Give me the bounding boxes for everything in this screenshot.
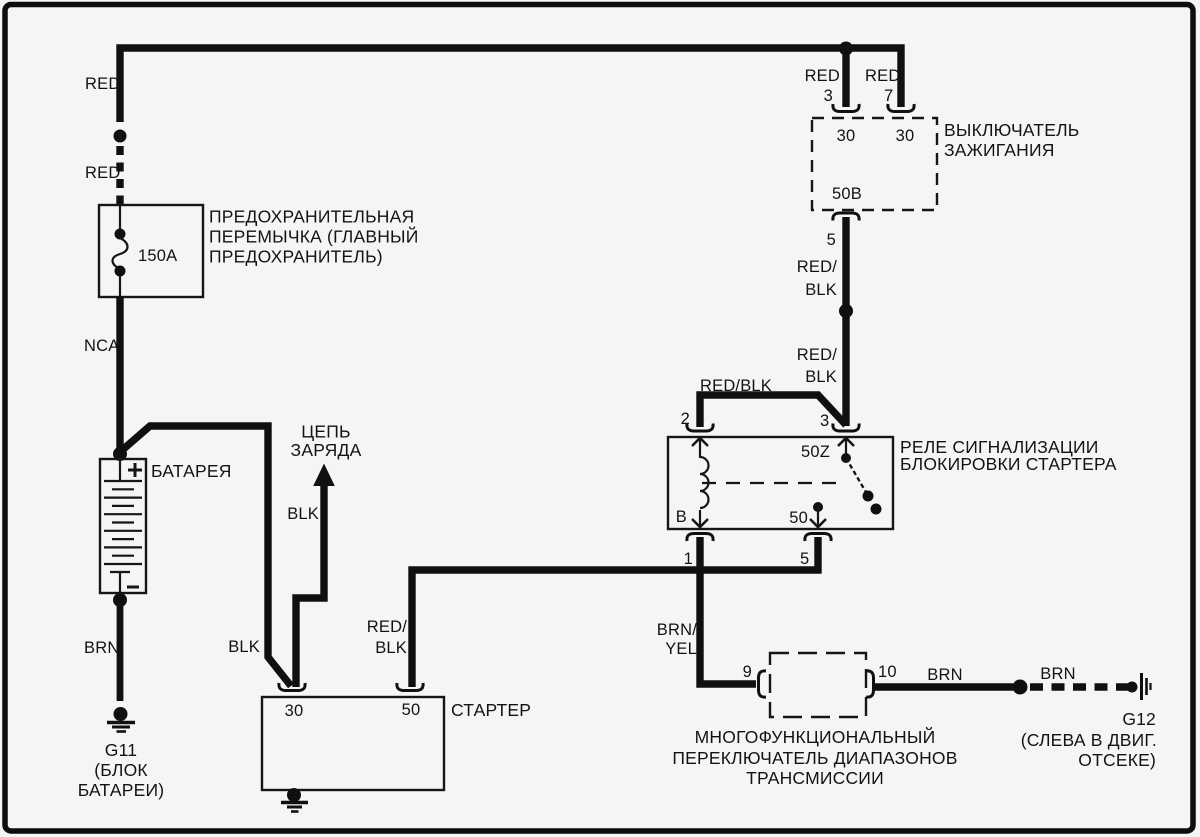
connector cup: ignition pin 5 (below box): [833, 213, 859, 221]
svg-text:30: 30: [285, 702, 304, 720]
svg-text:30: 30: [896, 127, 915, 145]
ground G12 symbol: [1127, 682, 1138, 693]
connector cup: relay pin 3: [833, 424, 859, 432]
svg-text:RED: RED: [85, 164, 120, 182]
switch pivot: [841, 453, 851, 463]
svg-text:ПРЕДОХРАНИТЕЛЬНАЯ: ПРЕДОХРАНИТЕЛЬНАЯ: [209, 207, 414, 227]
svg-text:RED/: RED/: [797, 346, 837, 364]
relay coil terminal arrow (up, pin 2): [692, 438, 708, 446]
svg-text:G11: G11: [105, 740, 137, 760]
ground at starter: [287, 788, 301, 802]
svg-text:BRN/: BRN/: [657, 621, 697, 639]
wire: pin 10 to junction (BRN): [874, 683, 1013, 690]
svg-text:ВЫКЛЮЧАТЕЛЬ: ВЫКЛЮЧАТЕЛЬ: [944, 120, 1079, 140]
svg-text:ЦЕПЬ: ЦЕПЬ: [301, 422, 350, 442]
wire: relay pin 5 to starter terminal 50 (RED/BLK): [412, 537, 818, 687]
wire: relay pin 2 branch joining pin 3 wire: [700, 395, 846, 427]
svg-text:БАТАРЕИ): БАТАРЕИ): [78, 780, 165, 800]
wire: fuse to battery: [116, 297, 123, 451]
svg-text:БАТАРЕЯ: БАТАРЕЯ: [151, 461, 232, 481]
connector cup: range switch pin 9: [759, 671, 767, 697]
svg-text:150A: 150A: [138, 247, 177, 265]
battery top stub: [119, 459, 121, 481]
battery G1: [100, 459, 146, 593]
connector cup: ignition pin 7: [888, 104, 914, 112]
svg-text:BLK: BLK: [375, 639, 407, 657]
svg-text:B: B: [676, 508, 687, 526]
connector cup: starter 50: [397, 683, 423, 691]
svg-text:RED: RED: [85, 75, 120, 93]
svg-text:ПЕРЕМЫЧКА (ГЛАВНЫЙ: ПЕРЕМЫЧКА (ГЛАВНЫЙ: [209, 226, 419, 247]
battery cell plates: [104, 481, 142, 564]
svg-text:10: 10: [878, 663, 897, 681]
svg-text:RED/: RED/: [367, 618, 407, 636]
svg-text:5: 5: [827, 231, 836, 249]
wire: battery to ground G11: [117, 603, 124, 701]
svg-text:BLK: BLK: [228, 638, 260, 656]
wire: drop to ignition pin 3: [842, 48, 849, 107]
wire: dashed RED segment into fuse: [116, 146, 123, 205]
wire: relay pin 1 down to range switch pin 9 (BRN/YEL): [700, 537, 756, 684]
junction: battery negative node: [113, 593, 127, 607]
relay coil: [700, 457, 709, 508]
connector cup: starter 30: [279, 683, 305, 691]
svg-text:ПРЕДОХРАНИТЕЛЬ): ПРЕДОХРАНИТЕЛЬ): [209, 247, 383, 267]
svg-text:30: 30: [837, 127, 856, 145]
fixed contact: [871, 504, 882, 515]
connector cup: relay pin 2: [687, 424, 713, 432]
svg-text:9: 9: [743, 663, 752, 681]
svg-text:2: 2: [681, 410, 690, 428]
ignition switch (dashed box): [812, 118, 937, 210]
svg-text:BLK: BLK: [287, 505, 319, 523]
connector cup: ignition pin 3: [833, 104, 859, 112]
junction: bus / ignition pin 3 drop: [839, 42, 853, 56]
relay coil terminal arrow (down, B): [699, 510, 701, 527]
svg-text:ТРАНСМИССИИ: ТРАНСМИССИИ: [746, 768, 884, 788]
svg-text:ЗАЖИГАНИЯ: ЗАЖИГАНИЯ: [944, 140, 1055, 160]
battery negative stub: [110, 572, 130, 593]
wire: charge circuit to starter terminal 30: [296, 485, 324, 687]
dashed actuator link: [702, 482, 841, 484]
junction: battery positive node: [113, 447, 127, 461]
wire: top bus from left vertical to ignition switch: [120, 48, 901, 122]
battery minus sign: [127, 586, 139, 589]
svg-text:СТАРТЕР: СТАРТЕР: [451, 700, 531, 720]
relay switch terminal arrow (up, pin 3): [838, 438, 854, 446]
ground G11: [114, 707, 128, 721]
svg-text:50Z: 50Z: [801, 443, 830, 461]
svg-text:BRN: BRN: [927, 666, 962, 684]
svg-text:50: 50: [789, 509, 808, 527]
junction dot on left wire: [114, 130, 127, 143]
svg-text:BRN: BRN: [1040, 665, 1075, 683]
battery plus sign: [128, 463, 142, 477]
charge circuit arrow: [313, 464, 335, 487]
svg-text:БЛОКИРОВКИ СТАРТЕРА: БЛОКИРОВКИ СТАРТЕРА: [900, 454, 1117, 474]
svg-text:(СЛЕВА В ДВИГ.: (СЛЕВА В ДВИГ.: [1021, 730, 1157, 750]
svg-text:50: 50: [402, 701, 421, 719]
svg-text:5: 5: [800, 550, 809, 568]
svg-text:BLK: BLK: [805, 281, 837, 299]
transmission range switch (dashed box): [770, 653, 866, 717]
fuse element: [119, 205, 121, 229]
switch blade: [846, 458, 867, 494]
svg-text:7: 7: [884, 87, 893, 105]
starter interlock relay box: [668, 437, 893, 529]
connector cup: range switch pin 10: [866, 671, 874, 697]
switch output dot and arrow (down, pin 5): [813, 502, 823, 512]
connector cup: relay pin 1: [687, 534, 713, 542]
wire: ignition pin 5 down to relay pin 3 (RED/BLK): [842, 217, 849, 426]
svg-text:ЗАРЯДА: ЗАРЯДА: [291, 440, 362, 460]
svg-text:BRN: BRN: [84, 639, 119, 657]
starter M box: [262, 697, 444, 790]
wire: dashed BRN to G12: [1030, 683, 1128, 690]
svg-text:ПЕРЕКЛЮЧАТЕЛЬ ДИАПАЗОНОВ: ПЕРЕКЛЮЧАТЕЛЬ ДИАПАЗОНОВ: [672, 748, 957, 768]
svg-text:3: 3: [820, 412, 829, 430]
svg-text:1: 1: [684, 550, 693, 568]
wire: battery positive to starter terminal 30: [120, 426, 291, 686]
junction dot BRN: [1013, 680, 1028, 695]
svg-text:YEL: YEL: [665, 640, 697, 658]
junction dot on RED/BLK wire: [839, 304, 853, 318]
connector cup: relay pin 5: [805, 534, 831, 542]
svg-text:(БЛОК: (БЛОК: [94, 760, 148, 780]
svg-text:G12: G12: [1122, 709, 1156, 729]
svg-text:50B: 50B: [832, 185, 862, 203]
svg-text:МНОГОФУНКЦИОНАЛЬНЫЙ: МНОГОФУНКЦИОНАЛЬНЫЙ: [695, 726, 936, 747]
svg-text:RED: RED: [805, 67, 840, 85]
svg-text:NCA: NCA: [84, 337, 119, 355]
svg-text:RED: RED: [865, 67, 900, 85]
svg-text:BLK: BLK: [805, 368, 837, 386]
fuse F1 150A box: [99, 205, 203, 297]
svg-text:3: 3: [824, 87, 833, 105]
svg-text:RED/: RED/: [797, 258, 837, 276]
svg-text:ОТСЕКЕ): ОТСЕКЕ): [1078, 750, 1156, 770]
